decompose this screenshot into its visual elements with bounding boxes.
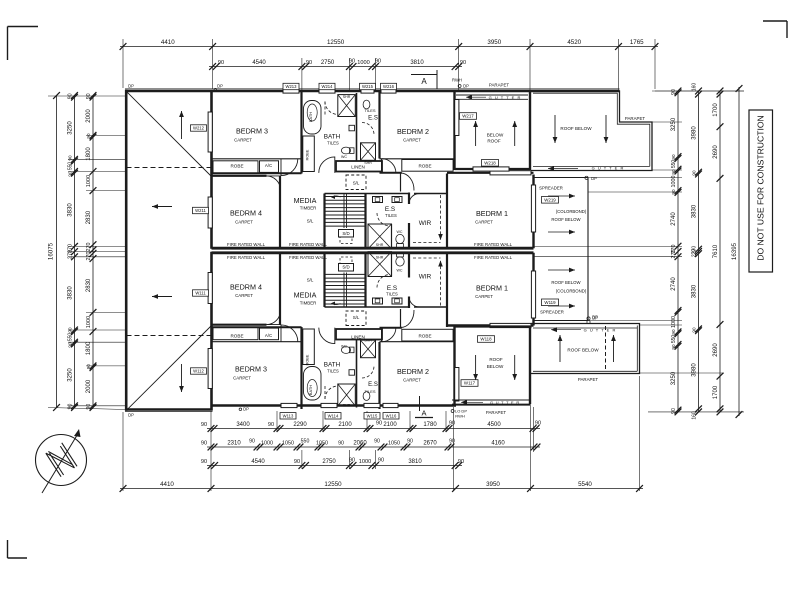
svg-text:90: 90: [249, 439, 255, 445]
svg-text:90: 90: [378, 458, 384, 464]
svg-text:2100: 2100: [383, 422, 397, 428]
svg-text:TILES: TILES: [327, 369, 339, 374]
below roof room bottom walls: [453, 327, 455, 405]
bath tub: [304, 101, 322, 135]
svg-text:W215: W215: [362, 84, 374, 89]
svg-text:3980: 3980: [692, 363, 698, 377]
svg-text:W211: W211: [195, 208, 206, 213]
svg-text:MEDIA: MEDIA: [294, 196, 317, 205]
svg-text:90: 90: [535, 421, 541, 427]
svg-text:W113: W113: [283, 414, 294, 419]
svg-text:90: 90: [349, 59, 355, 65]
svg-text:A: A: [421, 409, 426, 418]
svg-text:S/D: S/D: [342, 265, 349, 270]
svg-text:BELOW: BELOW: [487, 133, 504, 138]
svg-text:(COLORBOND): (COLORBOND): [556, 209, 587, 214]
wall es/bedrm2 x=379.5: [378, 92, 380, 159]
svg-text:90: 90: [201, 422, 207, 428]
extension lines bottom: [122, 412, 124, 491]
svg-text:SPREADER: SPREADER: [539, 186, 563, 191]
es top fixtures: [363, 100, 370, 109]
svg-text:2750: 2750: [322, 459, 336, 465]
bedrm4 door arc: [266, 176, 280, 190]
dimension line right col A: [677, 91, 679, 412]
svg-text:4160: 4160: [491, 441, 505, 447]
svg-text:G U T T E R: G U T T E R: [489, 95, 522, 100]
svg-text:W116: W116: [386, 414, 397, 419]
svg-text:550: 550: [68, 333, 74, 342]
svg-text:W214: W214: [322, 84, 334, 89]
bath robe strip: [303, 136, 315, 172]
svg-text:1700: 1700: [713, 385, 719, 399]
svg-text:TILES: TILES: [386, 292, 398, 297]
svg-text:ROOF BELOW: ROOF BELOW: [560, 126, 592, 131]
svg-text:E.S: E.S: [368, 116, 378, 122]
svg-text:PARAPET: PARAPET: [578, 377, 598, 382]
svg-text:1765: 1765: [630, 39, 644, 46]
svg-text:G U T T E R: G U T T E R: [584, 327, 617, 332]
svg-text:S/L: S/L: [307, 278, 314, 283]
svg-text:CARPET: CARPET: [475, 294, 493, 299]
svg-text:BEDRM 2: BEDRM 2: [397, 127, 429, 136]
stair direction arrow: [332, 196, 341, 197]
svg-text:12550: 12550: [324, 481, 342, 488]
svg-text:W213: W213: [286, 84, 298, 89]
svg-text:RWH: RWH: [452, 78, 462, 83]
svg-text:ROOF: ROOF: [487, 139, 500, 144]
svg-text:270: 270: [671, 250, 677, 259]
page corner mark bottom-left: [7, 540, 9, 558]
svg-text:(COLORBOND): (COLORBOND): [556, 289, 587, 294]
svg-text:1700: 1700: [713, 103, 719, 117]
bedrm2 door: [381, 159, 383, 173]
svg-text:TILES: TILES: [364, 389, 375, 394]
svg-text:CARPET: CARPET: [235, 293, 253, 298]
svg-text:2740: 2740: [671, 212, 677, 226]
svg-text:A/C: A/C: [265, 163, 272, 168]
svg-text:270: 270: [692, 249, 698, 258]
svg-text:TILES: TILES: [364, 108, 375, 113]
svg-text:A/C: A/C: [265, 333, 272, 338]
svg-text:FIRE RATED WALL: FIRE RATED WALL: [474, 255, 513, 260]
svg-text:W218: W218: [484, 161, 496, 166]
svg-text:90: 90: [68, 171, 73, 177]
svg-text:90: 90: [692, 327, 697, 333]
svg-text:16075: 16075: [48, 242, 55, 260]
svg-text:G U T T E R: G U T T E R: [490, 400, 520, 405]
dimension line top row 1: [120, 46, 658, 48]
page corner mark top-left: [8, 26, 39, 28]
dimension line left col 2: [74, 96, 76, 408]
svg-text:160: 160: [692, 83, 698, 92]
svg-text:3830: 3830: [692, 284, 698, 298]
svg-text:550: 550: [301, 439, 310, 445]
svg-text:DP: DP: [591, 176, 597, 181]
svg-text:90: 90: [86, 133, 91, 139]
svg-text:BEDRM 2: BEDRM 2: [397, 367, 429, 376]
svg-text:WIR: WIR: [419, 220, 432, 227]
svg-text:3810: 3810: [410, 60, 424, 66]
svg-text:1050: 1050: [282, 441, 294, 447]
svg-text:4500: 4500: [487, 422, 501, 428]
svg-text:MEDIA: MEDIA: [294, 291, 317, 300]
es unit walls: [366, 193, 410, 195]
svg-text:BEDRM 4: BEDRM 4: [230, 283, 262, 292]
exterior wall top / parapet: [125, 90, 620, 93]
svg-text:W219: W219: [544, 198, 556, 203]
svg-text:1000: 1000: [357, 60, 369, 66]
es unit dashed door: [377, 213, 390, 226]
svg-text:ROOF: ROOF: [489, 357, 502, 362]
svg-text:4540: 4540: [252, 60, 266, 66]
svg-text:DP: DP: [128, 84, 134, 89]
svg-text:2750: 2750: [321, 60, 335, 66]
svg-text:90: 90: [201, 441, 207, 447]
es unit shower: [368, 224, 392, 249]
svg-text:DP: DP: [128, 413, 134, 418]
svg-text:W117: W117: [464, 381, 476, 386]
terrace arrow up: [181, 111, 183, 139]
exterior wall bottom bedroom block: [211, 404, 457, 407]
dimension line right col C: [719, 91, 721, 412]
dimension line bottom row 4: [120, 488, 643, 490]
svg-text:16395: 16395: [731, 242, 738, 260]
svg-text:270: 270: [86, 252, 92, 261]
svg-text:BATH: BATH: [324, 362, 341, 369]
svg-text:SHR: SHR: [364, 339, 372, 343]
svg-text:90: 90: [201, 459, 207, 465]
svg-text:LINEN: LINEN: [351, 334, 365, 339]
svg-text:S/L: S/L: [353, 315, 360, 320]
svg-text:3830: 3830: [68, 203, 74, 217]
roof below bottom outline: [531, 324, 640, 374]
svg-text:E.S: E.S: [385, 206, 395, 213]
window W211 band: [208, 197, 212, 228]
svg-text:3250: 3250: [671, 117, 677, 131]
svg-text:CARPET: CARPET: [235, 220, 253, 225]
svg-text:TILES: TILES: [385, 213, 397, 218]
svg-text:PARAPET: PARAPET: [625, 116, 645, 121]
svg-text:SHR: SHR: [376, 256, 384, 260]
svg-text:CARPET: CARPET: [403, 378, 421, 383]
svg-text:90: 90: [268, 422, 274, 428]
svg-text:W217: W217: [462, 114, 474, 119]
svg-text:WIR: WIR: [419, 274, 432, 281]
svg-text:W119: W119: [544, 300, 556, 305]
es unit v boxes: [373, 197, 383, 203]
section marker A bottom: [419, 396, 421, 411]
svg-text:4410: 4410: [160, 481, 174, 488]
svg-text:550: 550: [671, 160, 677, 169]
bedrm3 door arc: [281, 159, 298, 176]
right dims connectors: [655, 90, 744, 92]
bedrm1 top walls: [447, 172, 534, 174]
svg-text:3810: 3810: [408, 459, 422, 465]
svg-text:90: 90: [374, 439, 380, 445]
svg-text:90: 90: [458, 459, 464, 465]
svg-text:SHR: SHR: [376, 243, 384, 247]
svg-text:SHR: SHR: [343, 404, 351, 408]
svg-text:FIRE RATED WALL: FIRE RATED WALL: [474, 242, 513, 247]
svg-text:4410: 4410: [161, 39, 175, 46]
roof below bottom dashed divider: [605, 326, 607, 371]
svg-text:TILES: TILES: [327, 141, 339, 146]
svg-text:1800: 1800: [86, 147, 92, 161]
window labels left wall: [191, 125, 207, 131]
svg-text:W114: W114: [328, 414, 339, 419]
svg-text:W111: W111: [195, 291, 206, 296]
svg-text:3950: 3950: [486, 481, 500, 488]
svg-text:2060: 2060: [353, 441, 367, 447]
svg-text:S/L: S/L: [353, 181, 360, 186]
stair SD box: [339, 230, 354, 238]
wall wir/bedrm1 x=447: [446, 174, 448, 249]
svg-text:W212: W212: [193, 126, 205, 131]
wall bedrm4/media x=280: [279, 176, 281, 249]
svg-text:W112: W112: [193, 369, 204, 374]
dimension line right col D: [738, 87, 740, 416]
below roof labels top: [460, 113, 477, 120]
below roof room top walls: [453, 91, 455, 170]
svg-text:90: 90: [68, 155, 73, 161]
svg-text:ROOF BELOW: ROOF BELOW: [567, 348, 599, 353]
svg-text:90: 90: [375, 59, 381, 65]
terrace diagonal upper: [127, 92, 212, 177]
window labels bottom wall: [280, 413, 296, 419]
svg-text:90: 90: [671, 154, 676, 160]
dimension line right col B: [698, 91, 700, 412]
wall terrace/bedroom x=211.5: [210, 90, 213, 249]
svg-text:DP: DP: [592, 315, 598, 320]
robe band bedrm3: [212, 158, 302, 160]
entry door: [400, 173, 402, 192]
svg-text:CARPET: CARPET: [475, 220, 493, 225]
stair enclosure: [325, 193, 366, 195]
page corner mark top-right: [763, 20, 787, 22]
svg-text:550: 550: [671, 335, 677, 344]
svg-text:90: 90: [86, 364, 91, 370]
svg-text:2290: 2290: [293, 422, 307, 428]
svg-text:E.S: E.S: [368, 382, 378, 388]
shower dashed door arc bath: [325, 102, 338, 115]
svg-text:BATH: BATH: [308, 385, 313, 395]
wir walls: [408, 193, 410, 205]
svg-text:90: 90: [338, 441, 344, 447]
wall under robe band y=173.5: [212, 172, 302, 174]
svg-text:90: 90: [376, 421, 382, 427]
svg-text:1050: 1050: [316, 441, 328, 447]
svg-text:S/D: S/D: [342, 231, 349, 236]
dimension line bottom row 2: [207, 446, 540, 448]
svg-text:3950: 3950: [487, 39, 501, 46]
svg-text:ROOF BELOW: ROOF BELOW: [551, 217, 581, 222]
svg-text:WC: WC: [397, 269, 403, 273]
svg-text:5540: 5540: [578, 481, 592, 488]
svg-text:1780: 1780: [423, 422, 437, 428]
svg-text:3250: 3250: [68, 368, 74, 382]
svg-text:160: 160: [692, 411, 698, 420]
svg-text:DP: DP: [463, 83, 469, 88]
svg-text:G U T T E R: G U T T E R: [592, 166, 625, 171]
svg-text:2830: 2830: [86, 278, 92, 292]
svg-text:3830: 3830: [692, 204, 698, 218]
terrace arrow down: [181, 364, 183, 392]
svg-text:TIMBER: TIMBER: [300, 206, 317, 211]
svg-text:BEDRM 3: BEDRM 3: [235, 365, 267, 374]
svg-text:4540: 4540: [251, 459, 265, 465]
svg-text:ROOF BELOW: ROOF BELOW: [551, 280, 581, 285]
svg-text:90: 90: [671, 329, 676, 335]
svg-text:90: 90: [692, 170, 697, 176]
svg-text:2670: 2670: [423, 441, 437, 447]
svg-text:FIRE RATED WALL: FIRE RATED WALL: [289, 255, 328, 260]
terrace dashed line lower: [127, 335, 212, 337]
svg-text:90: 90: [460, 60, 466, 66]
spreader line top: [534, 177, 589, 179]
svg-text:2740: 2740: [671, 277, 677, 291]
window W212 band: [208, 112, 212, 152]
svg-text:4520: 4520: [567, 39, 581, 46]
dimension line left col 3: [92, 96, 94, 408]
roof below bottom DP: [587, 320, 590, 323]
svg-text:CARPET: CARPET: [234, 138, 252, 143]
north arrow: [36, 435, 87, 486]
svg-text:270: 270: [86, 243, 92, 252]
wir dashed shelf: [440, 195, 442, 240]
window labels top wall: [283, 83, 299, 89]
svg-text:W118: W118: [480, 337, 492, 342]
svg-text:90: 90: [449, 421, 455, 427]
stair rail: [343, 194, 345, 229]
dimension line bottom row 1: [207, 428, 540, 430]
terrace diagonal lower: [127, 326, 212, 411]
linen: [336, 161, 382, 172]
svg-text:ROBE: ROBE: [418, 163, 431, 168]
svg-text:WC: WC: [341, 155, 347, 159]
exterior wall bottom terrace: [125, 408, 213, 411]
terrace arrow left lower: [152, 296, 172, 298]
svg-text:90: 90: [68, 404, 74, 410]
section marker A top: [411, 74, 437, 76]
svg-text:S/L: S/L: [307, 219, 314, 224]
svg-text:W115: W115: [367, 414, 378, 419]
svg-text:2100: 2100: [338, 422, 352, 428]
svg-text:1800: 1800: [86, 341, 92, 355]
svg-text:BELOW: BELOW: [487, 364, 504, 369]
dimension line top row 2: [209, 66, 462, 68]
svg-text:SHR: SHR: [343, 95, 351, 99]
hall wall y=175.8: [212, 175, 267, 177]
shower bath top: [338, 95, 356, 117]
svg-text:3830: 3830: [68, 286, 74, 300]
stair treads: [326, 196, 365, 198]
svg-text:2000: 2000: [86, 379, 92, 393]
extension lines right: [652, 121, 682, 123]
svg-text:BEDRM 4: BEDRM 4: [230, 209, 262, 218]
svg-text:TIMBER: TIMBER: [300, 301, 317, 306]
mirror of unit geometry for lower unit: [208, 252, 453, 411]
exterior wall left: [125, 90, 128, 411]
svg-text:LINEN: LINEN: [351, 164, 365, 169]
svg-text:3250: 3250: [68, 121, 74, 135]
dimension line bottom row 3: [207, 465, 462, 467]
wall bedrm3/bath x=301.5: [300, 92, 302, 174]
fire rated wall upper line: [212, 247, 534, 250]
svg-text:90: 90: [218, 60, 224, 66]
svg-text:FIRE RATED WALL: FIRE RATED WALL: [289, 242, 328, 247]
svg-text:BEDRM 1: BEDRM 1: [476, 209, 508, 218]
es dashed arc top: [362, 123, 374, 135]
svg-text:SPREADER: SPREADER: [540, 310, 564, 315]
terrace arrow left upper: [152, 206, 172, 208]
window bands bottom wall: [281, 403, 297, 407]
wir door arc: [409, 194, 420, 205]
svg-text:BEDRM 1: BEDRM 1: [476, 284, 508, 293]
svg-text:90: 90: [294, 459, 300, 465]
bedrm1 bottom walls: [447, 324, 534, 326]
window bands top wall: [283, 89, 299, 93]
svg-text:7610: 7610: [713, 244, 719, 258]
v box bath: [349, 125, 355, 131]
svg-text:RWH: RWH: [455, 414, 465, 419]
SL dashed box hall: [346, 175, 366, 190]
bath door arc: [319, 157, 335, 173]
below roof labels bottom: [478, 336, 495, 343]
svg-text:90: 90: [306, 60, 312, 66]
svg-text:1000: 1000: [261, 441, 273, 447]
svg-text:90: 90: [671, 408, 677, 414]
svg-text:FIRE RATED WALL: FIRE RATED WALL: [227, 255, 266, 260]
svg-text:SHR: SHR: [364, 161, 372, 165]
svg-text:90: 90: [349, 458, 355, 464]
svg-text:WC: WC: [341, 345, 347, 349]
svg-text:90: 90: [407, 439, 413, 445]
svg-text:A: A: [421, 77, 427, 86]
svg-text:1000: 1000: [86, 175, 92, 187]
es unit wc: [396, 234, 404, 243]
wc toilet bath: [341, 147, 350, 154]
svg-text:1050: 1050: [388, 441, 400, 447]
terrace dashed line upper: [127, 167, 212, 169]
svg-text:550: 550: [68, 162, 74, 171]
svg-text:3400: 3400: [236, 422, 250, 428]
svg-text:ROBE: ROBE: [306, 149, 310, 160]
svg-text:W216: W216: [383, 84, 395, 89]
svg-text:ROBE: ROBE: [230, 163, 243, 168]
svg-text:CARPET: CARPET: [403, 138, 421, 143]
wall bath/wc x=356.5: [356, 93, 358, 161]
extension lines left: [48, 95, 126, 97]
below roof room top gutter: [456, 94, 528, 96]
svg-text:2690: 2690: [713, 343, 719, 357]
colorbond right edge: [587, 178, 589, 321]
svg-text:PARAPET: PARAPET: [486, 410, 506, 415]
svg-text:DP: DP: [243, 407, 249, 412]
svg-text:3980: 3980: [692, 126, 698, 140]
fire rated wall lower line: [212, 251, 534, 254]
spreader line bottom: [534, 320, 589, 322]
svg-text:DP: DP: [217, 84, 223, 89]
svg-text:2690: 2690: [713, 145, 719, 159]
svg-text:90: 90: [449, 439, 455, 445]
shower es top: [361, 143, 376, 161]
svg-text:1000: 1000: [86, 316, 92, 328]
svg-text:2000: 2000: [86, 109, 92, 123]
below roof room bottom gutter: [452, 399, 530, 401]
svg-text:BEDRM 3: BEDRM 3: [236, 127, 268, 136]
svg-text:2830: 2830: [86, 210, 92, 224]
svg-text:BATH: BATH: [324, 134, 341, 141]
